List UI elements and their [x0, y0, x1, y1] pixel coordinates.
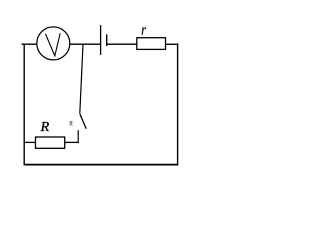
label r: [142, 27, 146, 34]
wire left side: [23, 44, 25, 164]
battery short plate: [106, 34, 108, 46]
resistor r box: [137, 38, 166, 50]
voltmeter V1 circle: [37, 27, 70, 60]
label S: [69, 121, 72, 124]
resistor R box: [36, 137, 65, 148]
wire right side: [177, 44, 179, 165]
battery long plate: [100, 25, 102, 55]
wire circle to battery: [70, 43, 101, 45]
wire switch to resistor R: [65, 141, 79, 143]
label R: [41, 122, 50, 131]
wire top to switch: [80, 44, 83, 113]
label S underline mark: [70, 124, 74, 126]
wire bottom: [24, 164, 179, 166]
wire top-left segment: [22, 43, 38, 45]
wire r to right corner: [166, 43, 179, 45]
switch bottom contact: [77, 130, 79, 143]
voltmeter V glyph: [45, 33, 60, 56]
wire left to resistor R: [24, 141, 35, 143]
wire battery to resistor r: [107, 43, 137, 45]
switch S blade: [80, 114, 86, 129]
